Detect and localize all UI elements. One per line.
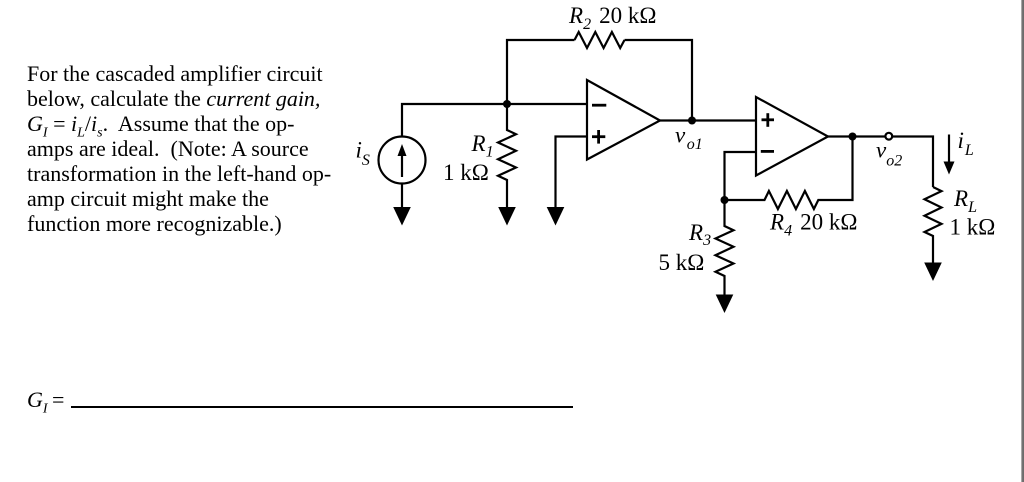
- wire: U2 minus input down to node B: [725, 152, 757, 200]
- svg-text:R3: R3: [688, 220, 711, 249]
- svg-text:iS: iS: [356, 138, 370, 170]
- svg-text:R420 kΩ: R420 kΩ: [769, 210, 857, 240]
- node vo2 (junction dot): [849, 133, 857, 141]
- ground (below current source): [393, 207, 411, 226]
- op-amp U1: [587, 80, 660, 160]
- svg-text:R1: R1: [471, 131, 494, 161]
- wire: U1 plus input to ground: [556, 137, 588, 209]
- current iL arrow: [944, 135, 955, 175]
- svg-text:iL: iL: [958, 128, 974, 159]
- U2 inverting input minus symbol: [761, 150, 774, 153]
- svg-text:RL: RL: [953, 186, 977, 216]
- node A (junction dot at R1 top): [503, 100, 511, 108]
- current source IS circle: [379, 137, 426, 184]
- current source IS internal up arrow: [398, 144, 407, 177]
- wire: U2 output to vo2 terminal: [828, 135, 885, 137]
- U2 non-inverting plus symbol: [762, 113, 775, 127]
- wire: source top to node A: [402, 104, 587, 137]
- op-amp U2: [756, 97, 828, 176]
- resistor R2 (feedback, horizontal): [575, 32, 625, 48]
- svg-text:5 kΩ: 5 kΩ: [659, 250, 705, 275]
- problem statement text: [27, 61, 357, 236]
- resistor R3: [716, 200, 734, 295]
- resistor R4 (horizontal): [725, 137, 853, 210]
- terminal vo2 (open circle): [885, 133, 892, 140]
- U1 inverting input minus symbol: [592, 104, 606, 107]
- ground (U1 plus input): [547, 207, 565, 226]
- resistor RL: [925, 187, 942, 263]
- svg-text:R220 kΩ: R220 kΩ: [568, 3, 656, 33]
- wire: U1 output to U2 input: [660, 119, 756, 121]
- svg-text:vo2: vo2: [876, 138, 902, 170]
- page right edge scan line: [1021, 0, 1024, 482]
- wire: vo2 to RL: [892, 137, 933, 188]
- node vo1 (junction dot): [688, 117, 696, 125]
- wire: source bottom to ground: [401, 184, 403, 209]
- U1 non-inverting plus symbol: [592, 130, 605, 144]
- svg-text:1 kΩ: 1 kΩ: [443, 160, 489, 185]
- svg-text:1 kΩ: 1 kΩ: [950, 215, 996, 240]
- node B (junction dot R3/R4): [721, 196, 729, 204]
- ground (below RL): [924, 263, 942, 282]
- wire: R2 right to output node: [625, 40, 693, 121]
- ground (below R1): [498, 207, 516, 226]
- resistor R1: [498, 104, 516, 208]
- wire: node A up to feedback rail: [507, 40, 575, 104]
- ground (below R3): [716, 295, 734, 314]
- svg-text:vo1: vo1: [675, 123, 703, 154]
